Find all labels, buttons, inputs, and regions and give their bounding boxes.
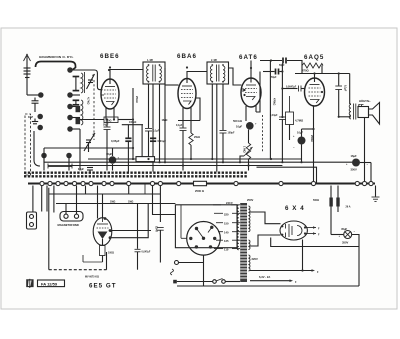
wire 6BE6 pin1 down (105, 108, 107, 120)
label heater voltage (259, 275, 270, 279)
wire 6BA6 pin1 down (182, 108, 184, 121)
wire magnetofond drops (66, 186, 77, 215)
connector MAGNETOFOND (58, 212, 84, 228)
resistor 250 Ohm cathode (310, 106, 314, 182)
capacitor electrolytic 10uF cathode 6AQ5 (293, 129, 306, 162)
svg-text:0,0047µF: 0,0047µF (286, 85, 297, 88)
wire T1 sec to 6BA6 grid (165, 84, 179, 86)
wire 6AT6 pin2 down (256, 72, 260, 113)
svg-text:250Ω: 250Ω (310, 135, 314, 142)
wire cathode to 45uF (331, 234, 343, 236)
shield box 6E5 right edge (106, 252, 108, 270)
tube V2 6BA6 (178, 79, 196, 109)
capacitor electrolytic 16uF 350V (346, 154, 371, 182)
capacitor padder left (78, 168, 93, 173)
label 1MOhm (162, 118, 169, 122)
capacitor 0,01uF if (150, 138, 166, 143)
wire drop 128 (128, 186, 130, 195)
svg-text:16µF: 16µF (351, 154, 358, 158)
svg-text:470Ω: 470Ω (302, 69, 309, 73)
svg-text:MAGNETOFOND: MAGNETOFOND (58, 223, 79, 227)
svg-text:220V: 220V (252, 257, 258, 261)
svg-text:470kΩ: 470kΩ (273, 98, 276, 105)
svg-text:HÖGTAL.: HÖGTAL. (359, 99, 371, 103)
capacitor 50uF cathode (103, 120, 111, 171)
wire heater winding F2 (250, 279, 297, 284)
svg-text:26 A: 26 A (346, 206, 351, 209)
voltage selector plug (187, 222, 221, 256)
shield dashed line left (93, 80, 95, 140)
wire T2 sec to 6AT6 (229, 68, 242, 85)
wire T1 primary bottom down (148, 84, 150, 128)
svg-text:50µF: 50µF (103, 124, 109, 127)
wire screen vertical (132, 88, 134, 159)
svg-text:100Ω: 100Ω (108, 252, 114, 255)
shielded cable dashes (262, 115, 264, 152)
mains terminal upper (175, 261, 204, 265)
wire bus y167 right (257, 167, 317, 182)
wire cathode join (302, 128, 314, 130)
svg-text:500Ω: 500Ω (313, 199, 319, 202)
wire gram input curve (36, 62, 76, 70)
wire chassis drop c (85, 186, 87, 195)
label MV catalog (85, 276, 99, 279)
wire volume wiper (240, 156, 244, 162)
capacitor electrolytic 10uF 350V (106, 148, 120, 171)
node ferrite t2 (67, 153, 71, 170)
wire chassis drop left2 (53, 186, 55, 213)
wire 6AT6 pin1 down (245, 106, 247, 112)
svg-text:FA 12/59: FA 12/59 (41, 282, 58, 287)
shield box 6E5 bottom edge (49, 269, 107, 271)
wire 6X4 heater arrows (306, 226, 320, 236)
chassis braid shield upper (24, 172, 248, 174)
terminal strip circle 1 (68, 68, 72, 72)
resistor block lower (76, 118, 81, 124)
junction dots (106, 59, 340, 166)
wire chassis drop left1 (32, 186, 34, 213)
trimmer capacitor upper (87, 74, 95, 89)
svg-text:150: 150 (224, 222, 229, 226)
loudspeaker LS (358, 99, 380, 124)
capacitor 0,01uF (270, 114, 286, 162)
terminal strip circle 3 (68, 104, 72, 108)
svg-text:0,05µF: 0,05µF (111, 139, 120, 143)
wire 6BE6 pin2 down (113, 108, 115, 120)
svg-text:GRAMMOFON O. DYL: GRAMMOFON O. DYL (39, 55, 74, 59)
trimmer capacitor lower (84, 133, 95, 152)
resistor block upper (76, 106, 81, 112)
wire HT secondary to 6X4 plate1 (250, 212, 281, 224)
svg-text:350V: 350V (342, 241, 348, 245)
wire 6E5 feeds (98, 186, 103, 219)
tube V6 6E5GT (93, 218, 112, 246)
wire avc left segment (44, 147, 134, 154)
power transformer T4 core (240, 203, 247, 282)
wire chassis drop b (46, 186, 48, 212)
IF transformer T1 (143, 59, 165, 84)
tube V4 6AQ5 (305, 78, 325, 106)
wire 6X4 heater tap (301, 240, 303, 272)
wire selector common down (203, 255, 205, 286)
svg-text:100pF: 100pF (228, 132, 235, 135)
svg-text:350V: 350V (351, 168, 357, 172)
svg-text:45µF: 45µF (341, 227, 348, 231)
capacitor coupling 50pF top (260, 58, 302, 67)
coil osc winding lower L3 (81, 100, 83, 125)
power transformer secondary winding (248, 206, 250, 271)
svg-text:25kΩ: 25kΩ (135, 96, 139, 103)
wire left bus drop (43, 154, 45, 163)
chassis braid shield lower (24, 175, 248, 177)
svg-text:10µF: 10µF (106, 152, 113, 156)
svg-text:10µF: 10µF (236, 125, 243, 129)
label FA 12/59 box (38, 280, 65, 287)
svg-text:1MΩ: 1MΩ (162, 118, 169, 122)
wire t2 right (72, 94, 80, 96)
wire 250V run (271, 238, 359, 287)
tube label 6AQ5 (304, 54, 324, 61)
wire B+ top line (295, 74, 350, 79)
chassis ground bus (28, 183, 375, 185)
wire bottom return (177, 285, 359, 287)
resistor 6BA6 screen (189, 121, 200, 160)
potentiometer 1MOhm volume (243, 130, 253, 171)
svg-text:250V: 250V (247, 198, 253, 202)
label 2500 ohm field (194, 181, 207, 193)
wire t1 to grid (72, 70, 102, 90)
mains cord squiggle (171, 269, 174, 275)
voltage selector box (175, 205, 237, 248)
wire antenna to terminal (27, 94, 39, 96)
label 250V (247, 198, 253, 202)
wire speaker return (364, 118, 366, 183)
capacitor 6BA6 cathode (176, 121, 187, 171)
switch S1 mains (213, 279, 240, 284)
wire bus y159 (88, 158, 302, 160)
svg-text:MV 6075 KΩ: MV 6075 KΩ (85, 276, 99, 279)
node terminal dap (28, 114, 42, 119)
svg-text:0,1µF: 0,1µF (344, 85, 347, 92)
label GRAMMOFON O. DYL (39, 55, 74, 59)
wire 6E5 output right (104, 204, 151, 239)
phono jack J1 (27, 212, 37, 229)
resistor surge 500 Ohm (313, 186, 333, 235)
tube label 6BA6 (177, 53, 197, 60)
coil coupling bar (48, 164, 72, 169)
svg-text:25kΩ: 25kΩ (194, 136, 200, 139)
wire selector feed lines (153, 186, 176, 223)
svg-text:100kΩ: 100kΩ (129, 121, 136, 124)
wire bus y162 (44, 161, 352, 163)
svg-text:0,047: 0,047 (155, 226, 158, 233)
wire T1 sec bottom down (159, 84, 161, 162)
wire 6BA6 pin2 down (190, 107, 192, 121)
svg-text:1. MF: 1. MF (147, 59, 154, 62)
capacitor 0,05uF (122, 121, 143, 125)
svg-text:1MΩ: 1MΩ (110, 201, 115, 204)
ferrite coil core wire (34, 131, 40, 166)
svg-text:6E5 GT: 6E5 GT (89, 283, 117, 290)
resistor 6E5 target (100, 246, 114, 263)
wire 6BA6 right pin (196, 98, 200, 121)
capacitor T1 bypass (145, 129, 160, 160)
capacitor dap (32, 119, 38, 124)
capacitor electrolytic 45uF 350V (339, 227, 356, 245)
svg-text:0,1µF: 0,1µF (153, 130, 160, 133)
tube label 6E5 GT (89, 283, 117, 290)
capacitor tank top (73, 77, 80, 91)
wire heater winding F1 (250, 269, 319, 274)
wire T2 primary bottom down (211, 84, 213, 159)
wire T2 sec bottom down (222, 84, 224, 130)
label 250V lower (252, 257, 258, 261)
wire 16uF feed (351, 161, 353, 163)
tube label 6BE6 (100, 53, 120, 60)
mains terminal lower (173, 280, 212, 284)
wire t3 right (72, 106, 80, 108)
IF transformer T2 (207, 59, 229, 84)
coil osc winding upper L2 (81, 72, 85, 93)
svg-text:6AQ5: 6AQ5 (304, 54, 324, 61)
svg-text:4,7MΩ: 4,7MΩ (295, 119, 304, 123)
svg-text:2. MF: 2. MF (211, 59, 218, 62)
ferrite rod dashed frame (25, 114, 31, 175)
wire 6AT6 grid top (250, 61, 252, 79)
chassis junction circles (40, 181, 373, 185)
capacitor 0,05uF (111, 125, 132, 172)
svg-text:6BE6: 6BE6 (100, 53, 120, 60)
logo emblem (26, 279, 33, 288)
svg-text:500 kΩ: 500 kΩ (233, 119, 243, 123)
svg-text:6 X 4: 6 X 4 (285, 205, 305, 212)
capacitor 0,047uF lf (135, 204, 151, 270)
capacitor electrolytic 10uF 6AT6 (236, 122, 257, 130)
wire 45uF to right rail (352, 235, 359, 247)
wire t5 right (72, 128, 80, 130)
wire v142 (141, 125, 143, 159)
wire lf line1 (56, 201, 175, 204)
node ferrite t1 (42, 153, 46, 170)
tube V3 6AT6 (241, 78, 261, 107)
svg-text:2500 Ω: 2500 Ω (195, 189, 205, 193)
svg-text:140: 140 (224, 231, 229, 235)
wire chassis drop a (41, 186, 43, 212)
antenna coupling coil L1 (24, 68, 31, 78)
svg-text:110: 110 (224, 248, 229, 252)
wire bus y165 (70, 165, 282, 167)
wire screen feed vertical (270, 61, 275, 160)
svg-text:0,5µF: 0,5µF (78, 168, 85, 171)
terminal strip circle 5 (68, 127, 72, 131)
wire 6BA6 plate to T2 (187, 72, 207, 79)
resistor inline 25k on bus (136, 157, 155, 162)
wire selector box feed (144, 184, 146, 195)
voltage tap labels (224, 201, 233, 252)
svg-text:125: 125 (224, 239, 229, 243)
wire coil bottom to chassis (79, 129, 81, 171)
capacitor 0,047uF mains (155, 226, 164, 263)
wire T1 right down (164, 68, 166, 162)
wire HT secondary to 6X4 plate2 (250, 235, 281, 246)
resistor 500kOhm diode load (233, 112, 246, 123)
capacitor coupling 50pF lower (263, 69, 282, 79)
wire cathode bus under 6BE6 (80, 117, 133, 123)
svg-text:50µF: 50µF (271, 76, 277, 79)
tube V5 6X4 (280, 221, 307, 240)
svg-text:4,7kΩ: 4,7kΩ (87, 97, 91, 105)
capacitor 0,1uF tone (335, 74, 346, 117)
wire lf line2 (49, 193, 160, 195)
tube V5 6X4 label (285, 205, 305, 212)
svg-text:6BA6: 6BA6 (177, 53, 197, 60)
capacitor tank lower (73, 100, 80, 105)
tube label 6AT6 (239, 54, 258, 61)
svg-text:6,3V - 2A: 6,3V - 2A (259, 275, 270, 279)
resistor 470 Ohm screen (302, 63, 323, 74)
svg-text:10µF: 10µF (297, 131, 304, 135)
svg-text:1 MΩ: 1 MΩ (243, 146, 247, 153)
shield box 6E5 left edge (48, 188, 50, 270)
wire cathode bus under 6BA6 (178, 120, 200, 122)
svg-text:1MΩ: 1MΩ (128, 201, 133, 204)
wire voltage taps (213, 205, 240, 249)
output transformer T3 (339, 104, 356, 120)
svg-text:6AT6: 6AT6 (239, 54, 258, 61)
label 25kOhm vertical (135, 96, 139, 103)
wire B+ corner down (349, 74, 351, 105)
svg-text:0,047µF: 0,047µF (142, 251, 151, 254)
wire t4 right (72, 117, 80, 119)
wire T2 core ground (216, 84, 218, 172)
svg-text:0,1µF: 0,1µF (176, 124, 183, 127)
capacitor ant trimmer (32, 98, 39, 113)
node terminal low (38, 125, 42, 129)
node terminal ant (39, 93, 43, 97)
power transformer primary winding (237, 205, 239, 250)
wire af coupling vertical (281, 64, 283, 117)
capacitor block (336, 186, 350, 213)
svg-text:220: 220 (224, 212, 229, 216)
resistor 4,7MOhm grid leak (286, 96, 304, 140)
tube V1 6BE6 (101, 79, 119, 109)
antenna A1 (24, 54, 31, 95)
wire T1 core ground (152, 84, 154, 172)
ground symbol right (372, 186, 380, 202)
label 4,7kOhm vertical (87, 97, 91, 105)
svg-text:0,01µF: 0,01µF (270, 114, 278, 117)
capacitor grid 6AQ5 (282, 85, 304, 91)
wire 6BE6 plate to T1 (110, 70, 143, 80)
wire 6E5 bottom (83, 255, 103, 262)
capacitor T2 avc (220, 131, 235, 163)
terminal strip circle 2 (68, 93, 72, 97)
terminal strip circle 4 (68, 115, 72, 119)
